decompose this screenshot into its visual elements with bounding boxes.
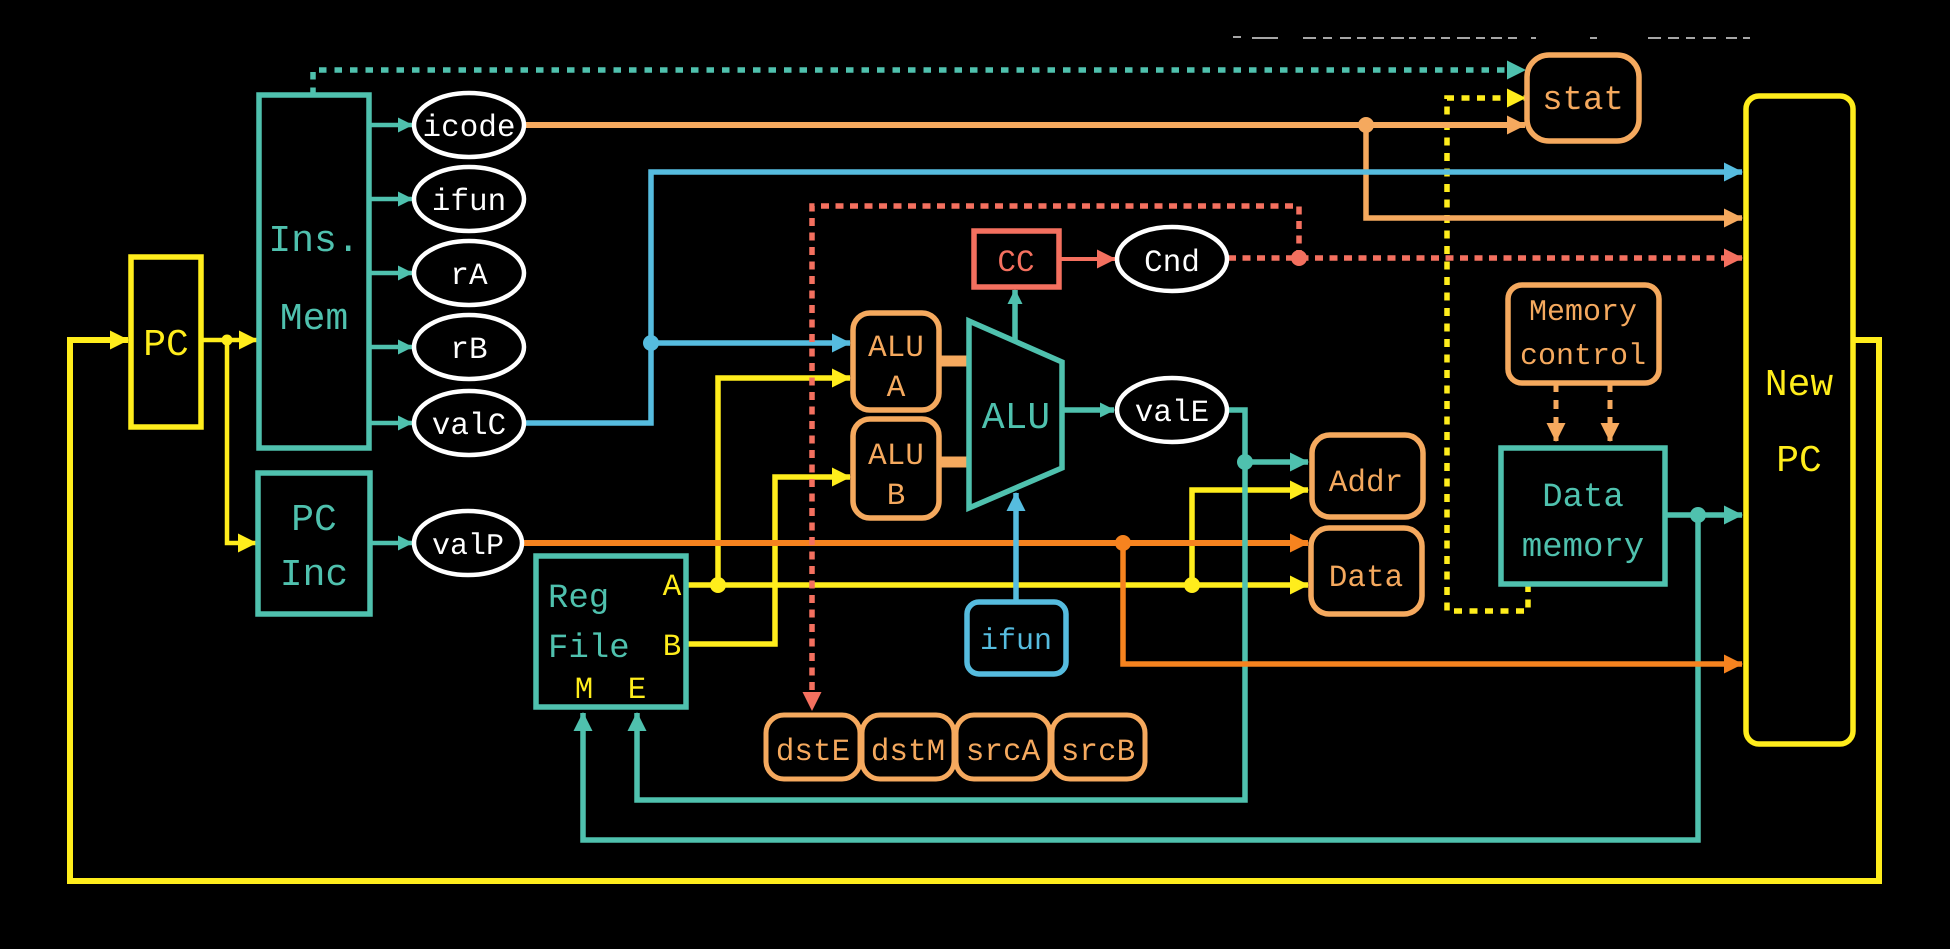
wire: ifun to ALU (blue) xyxy=(1013,493,1019,603)
wire: New PC feedback loop (yellow) xyxy=(70,340,1879,881)
wire: valE branch to Addr xyxy=(1245,459,1308,465)
wire: CC to Cnd (red) xyxy=(1059,257,1115,261)
wire: Ins.Mem to rB (teal) xyxy=(369,345,412,350)
block Ins. Mem xyxy=(259,95,369,448)
register PC xyxy=(131,257,201,427)
wire: Ins.Mem to valC (teal) xyxy=(369,421,412,426)
junction: valE branch xyxy=(1237,454,1253,470)
block Memory control xyxy=(1508,285,1659,383)
wire: Ins.Mem to ifun (teal) xyxy=(369,197,412,202)
wire: instruction status dotted (teal) to stat xyxy=(313,70,1525,95)
wire: Ins.Mem to icode (teal) xyxy=(369,123,412,128)
wire: memory control write dashed (orange) xyxy=(1608,383,1613,441)
ALU trapezoid xyxy=(969,321,1062,508)
node valP xyxy=(414,511,522,575)
wire: icode branch to New PC xyxy=(1366,125,1742,218)
junction: addr branch xyxy=(1184,577,1200,593)
wire: Cnd dashed branch to dstE xyxy=(812,206,1299,710)
wire: valP (orange) to Data xyxy=(522,540,1308,546)
wire: PC to PC Inc (yellow) xyxy=(227,340,256,543)
node srcB xyxy=(1052,715,1145,779)
wire: memory control read dashed (orange) xyxy=(1554,383,1559,441)
junction: PC out xyxy=(222,335,233,346)
block Data memory xyxy=(1501,448,1665,584)
node valC xyxy=(414,391,524,455)
node dstM xyxy=(862,715,954,779)
wire: ALU B stub (orange) xyxy=(936,457,970,468)
wire: valC (blue) up and to New PC xyxy=(523,172,1742,423)
block PC Inc xyxy=(258,473,370,614)
register CC xyxy=(974,231,1059,287)
node Addr xyxy=(1312,435,1423,517)
node Cnd xyxy=(1117,227,1227,291)
wire: PC Inc to valP (teal) xyxy=(370,541,412,546)
wire: valM (teal) Data memory to New PC xyxy=(1665,512,1742,518)
wire: valA branch to ALU A xyxy=(718,378,850,585)
wire: valM branch to Reg File M xyxy=(583,515,1698,840)
wire: ALU to valE (teal) xyxy=(1062,407,1114,413)
junction: Cnd branch xyxy=(1291,250,1307,266)
wire: ALU A stub (orange) xyxy=(936,356,970,367)
wire: ALU to CC (teal) xyxy=(1012,290,1018,341)
junction: valC branch xyxy=(643,335,659,351)
wire: valA (yellow) regfile A to Data xyxy=(686,582,1308,588)
wire: valE (teal) to Reg File E xyxy=(637,410,1245,800)
wire: Cnd dashed (red) to New PC xyxy=(1228,255,1742,261)
junction: icode branch xyxy=(1358,117,1374,133)
junction: valA branch xyxy=(710,577,726,593)
wire: valE/addr branch (yellow) to Addr xyxy=(1192,490,1308,585)
node Data xyxy=(1311,528,1422,614)
wire: valC branch to ALU A xyxy=(651,340,850,346)
node ifun xyxy=(414,167,524,231)
mux ALU A xyxy=(853,313,939,410)
wire: Ins.Mem to rA (teal) xyxy=(369,271,412,276)
node rB xyxy=(414,315,524,379)
junction: valM branch xyxy=(1690,507,1706,523)
cropped title text fragment xyxy=(1233,36,1750,39)
node srcA xyxy=(956,715,1050,779)
mux ALU B xyxy=(853,419,939,518)
block Reg File xyxy=(536,556,686,707)
wire: valB (yellow) regfile B to ALU B xyxy=(686,477,850,644)
node rA xyxy=(414,241,524,305)
junction: valP branch xyxy=(1115,535,1131,551)
node dstE xyxy=(766,715,860,779)
register New PC xyxy=(1746,96,1853,744)
wire: valP branch to New PC xyxy=(1123,543,1742,664)
node valE xyxy=(1117,378,1227,442)
wire: PC to Ins.Mem (yellow) xyxy=(201,338,257,343)
block ifun (ALU control) xyxy=(967,602,1066,674)
wire: icode (orange) to stat xyxy=(524,122,1525,128)
wire: dmem status dashed (yellow) to stat xyxy=(1447,98,1528,611)
register stat xyxy=(1527,55,1639,141)
node icode xyxy=(414,93,524,157)
